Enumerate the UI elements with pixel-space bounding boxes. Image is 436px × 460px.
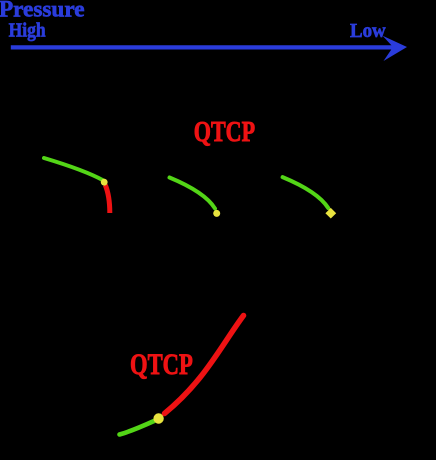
curve P3 second-order green arc: [283, 177, 329, 208]
svg-text:High: High: [9, 20, 47, 42]
tricritical point P1 yellow dot: [101, 179, 108, 186]
svg-text:QTCP: QTCP: [194, 117, 255, 148]
quantum phase boundary second-order green segment: [120, 421, 155, 435]
pressure axis arrow shaft: [11, 45, 394, 49]
QTCP point big yellow dot: [153, 413, 163, 423]
pressure axis arrowhead: [383, 36, 407, 61]
curve P2 second-order green arc: [170, 178, 216, 209]
svg-text:QTCP: QTCP: [130, 349, 193, 381]
svg-text:Pressure: Pressure: [0, 0, 84, 22]
svg-text:Low: Low: [350, 20, 386, 42]
curve P1 second-order green arc: [44, 158, 104, 181]
quantum phase boundary first-order red curve: [165, 316, 244, 414]
curve P1 first-order red segment: [105, 185, 110, 213]
tricritical point P2 yellow dot: [213, 210, 220, 217]
QTCP marker yellow diamond: [325, 208, 336, 219]
